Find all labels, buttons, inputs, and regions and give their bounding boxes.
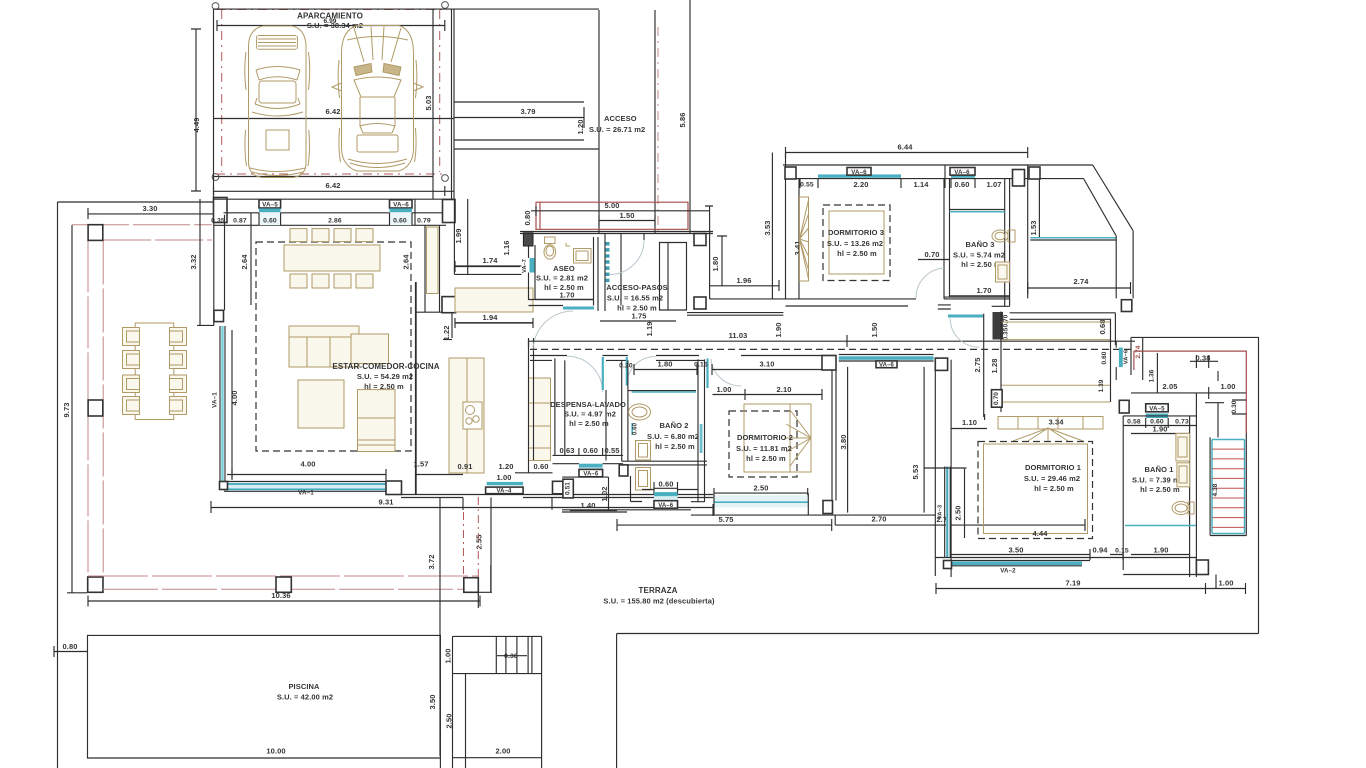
bath3 right wall double bbox=[1005, 179, 1010, 307]
svg-text:0.51: 0.51 bbox=[565, 482, 572, 495]
svg-text:hl = 2.50 m: hl = 2.50 m bbox=[1034, 484, 1074, 493]
svg-text:S.U. = 7.39 m2: S.U. = 7.39 m2 bbox=[1132, 476, 1184, 485]
svg-text:S.U. = 13.26 m2: S.U. = 13.26 m2 bbox=[827, 239, 883, 248]
parking bottom dim line 6.42 bbox=[214, 186, 455, 196]
dorm2 window pale band bbox=[714, 495, 808, 507]
svg-text:S.U. = 16.55 m2: S.U. = 16.55 m2 bbox=[607, 294, 663, 303]
bath1 top wall bbox=[1123, 415, 1196, 417]
terrace pillar south-kitchen bbox=[464, 578, 479, 593]
house bottom wall kitchen segment bbox=[401, 495, 713, 498]
car 2 mirrors bbox=[332, 83, 423, 91]
svg-text:9.73: 9.73 bbox=[62, 403, 71, 418]
pillar west bottom bbox=[214, 310, 224, 321]
niche 0.70 box bbox=[992, 390, 1003, 408]
access dim line 3.79 bbox=[454, 107, 584, 128]
bath2 left wall bbox=[622, 360, 628, 461]
svg-text:S.U. = 11.81 m2: S.U. = 11.81 m2 bbox=[736, 444, 792, 453]
svg-text:0.91: 0.91 bbox=[458, 462, 473, 471]
wall right stub bbox=[1114, 313, 1116, 345]
svg-text:4.49: 4.49 bbox=[192, 118, 201, 133]
svg-text:0.15: 0.15 bbox=[694, 362, 708, 369]
midroom right wall bbox=[934, 370, 936, 576]
bath3 entry door arc bbox=[950, 318, 979, 347]
bath3 cabinet tan bbox=[996, 262, 1010, 282]
lobby walls bbox=[552, 477, 691, 512]
dorm3 pillar top-left bbox=[785, 167, 796, 179]
hall left wall bbox=[604, 233, 606, 311]
kitchen island tan bbox=[449, 358, 484, 473]
svg-text:0.70: 0.70 bbox=[993, 392, 1000, 405]
vertical pool-right line bbox=[439, 498, 441, 757]
hall east pillar top bbox=[694, 234, 706, 246]
parking right wall bbox=[432, 9, 434, 199]
window VA-6b cyan bbox=[951, 174, 975, 177]
svg-text:ESTAR-COMEDOR-COCINA: ESTAR-COMEDOR-COCINA bbox=[332, 362, 439, 371]
window VA-6 label box bbox=[390, 200, 413, 208]
bath2 toilet bbox=[636, 441, 651, 491]
access path bottom lines bbox=[454, 140, 599, 149]
svg-text:1.50: 1.50 bbox=[620, 211, 635, 220]
svg-text:0.60: 0.60 bbox=[955, 180, 970, 189]
despensa right wall bbox=[605, 390, 607, 461]
svg-text:S.U. = 29.46 m2: S.U. = 29.46 m2 bbox=[1024, 474, 1080, 483]
bath3 toilet bbox=[992, 230, 1015, 242]
svg-text:0.60: 0.60 bbox=[393, 218, 407, 225]
dorm1 bed dashed bbox=[978, 442, 1093, 539]
access mid wall bbox=[598, 10, 600, 233]
midroom bottom line bbox=[833, 514, 936, 516]
svg-text:5.86: 5.86 bbox=[678, 113, 687, 128]
svg-text:1.80: 1.80 bbox=[658, 360, 673, 369]
svg-text:DORMITORIO 1: DORMITORIO 1 bbox=[1025, 463, 1081, 472]
car 2 body bbox=[342, 26, 414, 172]
corridor cyan sill bbox=[948, 315, 983, 318]
dim 9.31 line bbox=[211, 501, 713, 513]
pillar bath3 top-right bbox=[1013, 170, 1025, 187]
svg-text:1.94: 1.94 bbox=[483, 313, 499, 322]
svg-text:PISCINA: PISCINA bbox=[288, 682, 320, 691]
svg-text:0.80: 0.80 bbox=[63, 642, 78, 651]
svg-text:S.U. = 26.71 m2: S.U. = 26.71 m2 bbox=[589, 125, 645, 134]
window VA-6 cyan bar bbox=[390, 208, 413, 212]
svg-text:0.15: 0.15 bbox=[1115, 548, 1129, 555]
svg-text:6.42: 6.42 bbox=[326, 107, 341, 116]
window top sill line bbox=[924, 467, 966, 469]
outdoor chairs right bbox=[170, 328, 187, 346]
dorm1 window VA-2 cyan bottom bbox=[951, 562, 1082, 566]
svg-text:1.28: 1.28 bbox=[990, 359, 999, 374]
car 2 roof bbox=[360, 97, 395, 126]
hall-corridor wall band bbox=[687, 313, 783, 316]
car 1 roof bbox=[259, 81, 296, 103]
svg-text:6.44: 6.44 bbox=[898, 143, 914, 152]
svg-text:3.50: 3.50 bbox=[428, 695, 437, 710]
cooktop bbox=[463, 402, 482, 429]
wall x1157 bbox=[1156, 353, 1158, 393]
stairs outer rect bbox=[1210, 434, 1246, 536]
dorm3 left dim ext bbox=[771, 153, 773, 299]
car 2 rear window bbox=[360, 124, 395, 134]
kitchen wall dashes top bbox=[528, 340, 530, 350]
dim 1.22 tick bbox=[443, 339, 452, 341]
svg-text:1.00: 1.00 bbox=[444, 649, 453, 664]
svg-text:4.38: 4.38 bbox=[1212, 483, 1219, 496]
svg-text:TERRAZA: TERRAZA bbox=[639, 586, 678, 595]
svg-text:BAÑO 3: BAÑO 3 bbox=[966, 240, 995, 249]
svg-text:3.30: 3.30 bbox=[143, 204, 158, 213]
svg-text:1.22: 1.22 bbox=[442, 326, 451, 341]
aseo bottom wall bbox=[529, 300, 594, 306]
dim 3.30 line bbox=[88, 208, 214, 219]
dorm1 window VA-3 cyan left bbox=[946, 467, 950, 559]
aseo north wall band bbox=[454, 266, 521, 275]
site border left vertical bbox=[57, 202, 59, 768]
dorm2 bed pillows fan bbox=[784, 404, 811, 472]
kitchen west wall pair bbox=[425, 225, 440, 312]
site right vertical bbox=[1258, 337, 1260, 633]
svg-text:ACCESO-PASOS: ACCESO-PASOS bbox=[606, 283, 668, 292]
dorm2 right pillar bottom bbox=[823, 501, 833, 514]
svg-text:2.10: 2.10 bbox=[777, 385, 792, 394]
hall east pillar bottom bbox=[694, 297, 706, 309]
dim 0.60 below line bbox=[515, 472, 553, 474]
aseo right wall double bbox=[594, 237, 599, 311]
svg-text:2.50: 2.50 bbox=[954, 506, 963, 521]
pillar left of VA-5 bbox=[1119, 400, 1129, 413]
car 2 bumper bbox=[348, 159, 407, 168]
svg-text:1.20: 1.20 bbox=[499, 462, 514, 471]
svg-text:DESPENSA-LAVADO: DESPENSA-LAVADO bbox=[550, 400, 626, 409]
car 2 hood lines bbox=[347, 27, 408, 63]
svg-text:0.60: 0.60 bbox=[1101, 351, 1108, 364]
svg-text:1.20: 1.20 bbox=[576, 120, 585, 135]
svg-text:S.U. = 155.80 m2 (descubierta): S.U. = 155.80 m2 (descubierta) bbox=[603, 597, 715, 606]
svg-text:VA–4: VA–4 bbox=[497, 489, 513, 495]
window VA-6 pale bbox=[390, 212, 413, 225]
svg-text:VA–3: VA–3 bbox=[938, 504, 944, 519]
car 1 hood louvers bbox=[257, 36, 298, 50]
svg-text:BAÑO 2: BAÑO 2 bbox=[660, 421, 689, 430]
svg-text:5.75: 5.75 bbox=[719, 515, 734, 524]
svg-text:ACCESO: ACCESO bbox=[604, 114, 637, 123]
corridor cyan shelf bbox=[1030, 237, 1116, 239]
bath2 wall cyan window bbox=[699, 424, 703, 453]
svg-text:1.90: 1.90 bbox=[1154, 546, 1169, 555]
svg-text:2.75: 2.75 bbox=[973, 358, 982, 373]
stub vertical left bbox=[462, 498, 464, 511]
svg-text:VA–1: VA–1 bbox=[298, 490, 314, 497]
dorm1 headboard tan bbox=[998, 417, 1103, 430]
svg-text:0.60: 0.60 bbox=[659, 480, 674, 489]
terrace red line bottom outer bbox=[88, 575, 478, 577]
site bottom horizontal right bbox=[617, 633, 1259, 635]
svg-text:VA–7: VA–7 bbox=[522, 259, 528, 273]
svg-text:0.70: 0.70 bbox=[925, 250, 940, 259]
red vertical right (pergola zone) bbox=[1245, 414, 1247, 434]
svg-text:hl = 2.50 m: hl = 2.50 m bbox=[364, 382, 404, 391]
pillar west top bbox=[214, 198, 228, 223]
corridor bottom wall bbox=[1010, 313, 1116, 320]
diagonal inner bbox=[1084, 179, 1117, 236]
despensa left wall thick bbox=[555, 358, 565, 455]
svg-text:1.90: 1.90 bbox=[774, 323, 783, 338]
bath2 sink bbox=[629, 404, 651, 420]
aseo door sill cyan bbox=[563, 307, 594, 310]
svg-text:3.53: 3.53 bbox=[763, 221, 772, 236]
svg-text:0.94: 0.94 bbox=[1093, 546, 1109, 555]
pool outer rect bbox=[88, 635, 441, 758]
bath2 bottom wall bbox=[642, 489, 698, 491]
svg-text:2.00: 2.00 bbox=[496, 747, 511, 756]
svg-text:2.74: 2.74 bbox=[1074, 277, 1090, 286]
corridor left wall bbox=[1027, 165, 1029, 298]
bath2 window VA-6 cyan bbox=[654, 492, 678, 496]
window VA-1 bottom cyan bar bbox=[224, 483, 386, 491]
terrace red vertical inner bbox=[102, 240, 104, 577]
svg-text:1.00: 1.00 bbox=[1221, 382, 1236, 391]
dorm3 bed dashed bbox=[823, 205, 890, 281]
car 1 rear window bbox=[255, 98, 300, 109]
car 2 headlight right bbox=[383, 64, 401, 76]
access east wall pair bbox=[655, 0, 690, 233]
corridor top inner line bbox=[1039, 178, 1083, 180]
bath1 bottom pillar bbox=[1196, 560, 1208, 575]
dorm2 right pillar top bbox=[822, 356, 836, 371]
dorm3 bottom wall lower line bbox=[786, 305, 909, 307]
terrace red line top bbox=[72, 224, 212, 226]
svg-text:1.80: 1.80 bbox=[711, 257, 720, 272]
bath1 top area: VA-5 label + cyan bbox=[1146, 404, 1169, 412]
svg-text:1.70: 1.70 bbox=[977, 286, 992, 295]
pillar below despensa bbox=[553, 481, 565, 494]
kitchen tall cupboard tan bbox=[427, 227, 439, 294]
dressing left wall bbox=[950, 360, 952, 577]
pillar corridor top bbox=[1029, 167, 1040, 179]
diagonal outer bbox=[1093, 165, 1133, 231]
living top wall line1 bbox=[214, 198, 456, 200]
aseo divider bbox=[620, 234, 622, 306]
stairs cyan border bbox=[1212, 440, 1245, 534]
living room labels bbox=[332, 362, 439, 391]
svg-text:6.42: 6.42 bbox=[326, 181, 341, 190]
car 2 headlight left bbox=[354, 64, 372, 76]
living east pillar bbox=[443, 200, 456, 223]
svg-text:1.74: 1.74 bbox=[483, 256, 499, 265]
svg-text:2.74: 2.74 bbox=[1135, 345, 1142, 358]
svg-text:VA–6: VA–6 bbox=[954, 169, 970, 176]
parking top edge bbox=[214, 8, 600, 10]
corridor long dashed line bbox=[530, 348, 1135, 350]
dorm3 bed tan bbox=[829, 211, 884, 274]
window VA-6 despensa cyan bbox=[579, 464, 603, 468]
site top-right horizontal bbox=[1131, 336, 1259, 338]
svg-text:1.90: 1.90 bbox=[1153, 425, 1168, 434]
despensa door arc bbox=[567, 356, 603, 392]
svg-text:1.00: 1.00 bbox=[717, 385, 732, 394]
svg-text:2.86: 2.86 bbox=[328, 218, 342, 225]
svg-text:3.32: 3.32 bbox=[189, 255, 198, 270]
living top wall line3 bbox=[214, 224, 447, 226]
svg-text:S.U. = 2.81 m2: S.U. = 2.81 m2 bbox=[536, 274, 588, 283]
dim ticks top bbox=[800, 165, 975, 188]
svg-text:1.07: 1.07 bbox=[987, 180, 1002, 189]
svg-text:1.00: 1.00 bbox=[497, 473, 512, 482]
despensa bottom wall bbox=[553, 455, 624, 463]
dorm3 left wall bbox=[786, 153, 800, 299]
hall east wall bbox=[705, 206, 713, 299]
svg-text:1.57: 1.57 bbox=[414, 460, 429, 469]
hall-kitchen door arc bbox=[533, 311, 573, 351]
dim 11.03 line bbox=[528, 335, 1135, 347]
svg-text:3.79: 3.79 bbox=[521, 107, 536, 116]
aseo toilet bbox=[544, 237, 556, 259]
right wall segments bbox=[1116, 337, 1143, 380]
red dash vertical 2 bbox=[477, 497, 479, 604]
dorm2 door leaf cyan bbox=[706, 359, 708, 389]
dim line vertical 1.80 bbox=[717, 236, 727, 286]
svg-text:3.80: 3.80 bbox=[839, 435, 848, 450]
dining chairs top row bbox=[290, 229, 307, 242]
svg-text:S.U. = 42.00 m2: S.U. = 42.00 m2 bbox=[277, 693, 333, 702]
bath2 door arc bbox=[627, 357, 656, 386]
bath3 left wall bbox=[949, 179, 951, 298]
corner circle BL bbox=[212, 174, 219, 181]
car 1 bumper bbox=[250, 168, 305, 176]
svg-text:4.00: 4.00 bbox=[301, 460, 316, 469]
svg-text:S.U. = 5.74 m2: S.U. = 5.74 m2 bbox=[953, 251, 1005, 260]
svg-text:1.96: 1.96 bbox=[737, 276, 752, 285]
vertical line below despensa bbox=[490, 565, 492, 592]
midroom window cyan top bbox=[839, 356, 934, 360]
svg-text:0.35: 0.35 bbox=[1003, 327, 1010, 340]
svg-text:VA–6: VA–6 bbox=[879, 363, 895, 369]
svg-text:2.55: 2.55 bbox=[475, 535, 484, 550]
lower terrace left vertical bbox=[616, 634, 618, 768]
svg-text:11.03: 11.03 bbox=[729, 331, 748, 340]
svg-text:hl = 2.50 m: hl = 2.50 m bbox=[655, 442, 695, 451]
svg-text:VA–5: VA–5 bbox=[262, 202, 278, 209]
svg-text:2.50: 2.50 bbox=[754, 484, 769, 493]
dim 10.36 line bbox=[88, 596, 480, 607]
svg-text:VA–6: VA–6 bbox=[658, 503, 674, 509]
bath3 door sill bbox=[938, 305, 951, 309]
wall stub below bath3 thick bbox=[993, 312, 1004, 340]
vestibule right wall bbox=[983, 314, 985, 417]
dim 4.49 vertical line bbox=[191, 29, 201, 191]
dim 2.64 vertical line bbox=[250, 225, 252, 305]
svg-text:DORMITORIO 3: DORMITORIO 3 bbox=[828, 228, 884, 237]
hall bottom wall to dorm3 bbox=[710, 298, 784, 300]
stairs red treads bbox=[1212, 449, 1245, 527]
svg-text:0.35: 0.35 bbox=[211, 218, 225, 225]
window VA-4 cyan bar bbox=[487, 482, 523, 485]
top wall dim ticks bbox=[251, 199, 415, 225]
red rect top-right bbox=[1134, 351, 1246, 433]
VA-6a label box bbox=[847, 168, 871, 176]
right wall stub to dim bbox=[1215, 575, 1217, 589]
terrace red line top inner bbox=[103, 239, 212, 241]
dressing window cyan right bbox=[1119, 348, 1123, 368]
svg-text:1.10: 1.10 bbox=[962, 418, 977, 427]
pillar living south-east bbox=[386, 481, 402, 495]
door jamb 0.51 bbox=[563, 479, 573, 498]
step verticals bbox=[496, 636, 532, 673]
svg-text:1.02: 1.02 bbox=[600, 487, 609, 502]
bath3 shower cyan bbox=[950, 211, 1005, 213]
outdoor table top bbox=[135, 323, 174, 420]
corridor right wall bbox=[1116, 231, 1133, 299]
svg-text:0.60: 0.60 bbox=[633, 422, 639, 435]
svg-text:2.64: 2.64 bbox=[240, 254, 249, 270]
svg-text:1.70: 1.70 bbox=[560, 291, 575, 300]
svg-text:2.64: 2.64 bbox=[402, 254, 411, 270]
dim 5.75 line bbox=[617, 519, 832, 531]
svg-text:VA–6: VA–6 bbox=[1124, 349, 1130, 364]
corner circle TR bbox=[442, 2, 449, 9]
black vertical x491 bbox=[490, 498, 492, 593]
living west wall inner bbox=[213, 199, 215, 325]
car 2 trunk bbox=[357, 135, 398, 152]
svg-text:hl = 2.50 m: hl = 2.50 m bbox=[837, 249, 877, 258]
bath2 right wall bbox=[691, 359, 705, 502]
access west double wall bbox=[452, 9, 455, 199]
bath1 toilet bbox=[1172, 502, 1190, 515]
kitchen right counter tan bbox=[529, 378, 551, 461]
access path top line bbox=[454, 101, 584, 103]
aseo window VA-7 cyan bbox=[530, 258, 535, 273]
aseo dim line bbox=[535, 299, 594, 301]
svg-text:1.36: 1.36 bbox=[1149, 369, 1156, 382]
svg-text:1.14: 1.14 bbox=[914, 180, 930, 189]
VA-6 label midroom bbox=[876, 361, 897, 368]
dining table bbox=[284, 245, 380, 271]
parking red dashed boundary bbox=[216, 10, 444, 175]
dim line under 1.80 bbox=[634, 364, 836, 375]
dorm3 window VA-6a cyan bbox=[818, 174, 901, 177]
svg-text:2.20: 2.20 bbox=[854, 180, 869, 189]
svg-text:hl = 2.50 m: hl = 2.50 m bbox=[569, 419, 609, 428]
svg-text:VA–5: VA–5 bbox=[1149, 406, 1165, 413]
car 1 windshield bbox=[256, 67, 300, 81]
svg-text:BAÑO 1: BAÑO 1 bbox=[1145, 465, 1174, 474]
bath2 door leaf cyan bbox=[626, 357, 628, 386]
svg-text:0.58: 0.58 bbox=[1127, 419, 1141, 426]
red dash boundary mid bbox=[657, 27, 659, 231]
bath2 shower cyan bbox=[632, 391, 696, 393]
bath1 cabinets tan bbox=[1176, 434, 1190, 462]
svg-text:0.87: 0.87 bbox=[233, 218, 247, 225]
south wall stub bbox=[464, 591, 492, 593]
svg-text:0.60: 0.60 bbox=[263, 218, 277, 225]
svg-text:3.10: 3.10 bbox=[760, 360, 775, 369]
kitchen wall stub bbox=[451, 312, 453, 338]
aseo left wall bbox=[529, 245, 536, 300]
sofa small bbox=[358, 445, 396, 452]
living west wall outer bbox=[199, 199, 201, 325]
VA-6b label box bbox=[950, 168, 975, 176]
dim vertical line 4.00 bbox=[231, 330, 233, 478]
svg-text:9.31: 9.31 bbox=[379, 498, 394, 507]
despensa door cyan leaf bbox=[602, 357, 604, 390]
svg-text:hl = 2.50 m: hl = 2.50 m bbox=[1140, 485, 1180, 494]
svg-text:1.75: 1.75 bbox=[632, 312, 647, 321]
pillar corridor bottom-right bbox=[1121, 300, 1131, 312]
car 1 body bbox=[249, 26, 307, 178]
car 1 trunk bbox=[266, 130, 289, 150]
dressing closet tan lines bbox=[1001, 322, 1110, 402]
outdoor chairs left bbox=[123, 328, 140, 346]
dorm3 top wall outer bbox=[783, 164, 1093, 166]
